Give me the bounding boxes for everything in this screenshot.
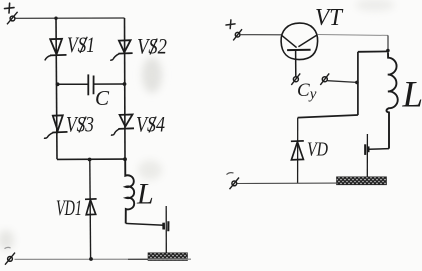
control terminal circle A (Cy) bbox=[291, 73, 300, 85]
wire: coil bottom to blocking capacitor (right) bbox=[369, 148, 389, 151]
plus input terminal circle right circuit bbox=[233, 29, 242, 40]
transistor VT internals bbox=[282, 35, 318, 77]
wire: middle bottom row left circuit bbox=[57, 158, 125, 160]
node: right branch / bottom row bbox=[123, 157, 127, 161]
thyristor VS4 bbox=[111, 115, 134, 136]
capacitor wire-end plate (right circuit) bbox=[367, 146, 370, 152]
node: junction top rail / left branch bbox=[54, 17, 57, 20]
svg-text:VT: VT bbox=[315, 5, 344, 31]
plus terminal label (+) left circuit bbox=[5, 3, 15, 13]
label VS4 (S crossed) bbox=[149, 117, 156, 133]
node: coil top junction bbox=[386, 49, 390, 53]
svg-text:C: C bbox=[95, 86, 110, 110]
wire: terminal B to right vertical bbox=[327, 81, 356, 83]
wire: plus terminal to transistor bbox=[240, 34, 281, 36]
svg-text:L: L bbox=[136, 178, 154, 211]
minus output terminal circle right circuit bbox=[230, 178, 240, 190]
svg-text:VS4: VS4 bbox=[136, 112, 165, 137]
svg-text:VS2: VS2 bbox=[137, 34, 167, 59]
screen / chassis block (left circuit, hatched) bbox=[148, 253, 188, 261]
control terminal circle B bbox=[320, 73, 329, 85]
capacitor short plate right (left circuit) bbox=[167, 221, 169, 231]
svg-text:VS1: VS1 bbox=[67, 32, 95, 57]
transistor VT (circle) bbox=[281, 23, 318, 60]
wire: jog left from coil junction bbox=[358, 50, 388, 52]
svg-text:VD: VD bbox=[307, 139, 328, 161]
wire: horizontal to VD branch bbox=[298, 115, 358, 118]
inductor L (right circuit) bbox=[386, 52, 397, 148]
capacitor short plate left (right circuit) bbox=[364, 144, 366, 155]
svg-text:VD1: VD1 bbox=[56, 195, 82, 220]
node: right branch / capacitor row bbox=[123, 82, 127, 86]
minus sign right circuit bbox=[227, 173, 234, 175]
node: VD1 / bottom rail bbox=[89, 257, 93, 261]
wire: VD1 branch vertical bbox=[89, 160, 92, 260]
wire: transistor to top-right corner bbox=[318, 34, 388, 37]
inductor L (left circuit) bbox=[125, 159, 134, 223]
svg-text:L: L bbox=[402, 75, 422, 116]
minus sign left circuit bbox=[5, 247, 11, 248]
capacitor plate (wire-end, left circuit) bbox=[162, 223, 165, 230]
wire: bottom rail left circuit bbox=[15, 258, 192, 260]
capacitor long plate / lead to screen (left circuit) bbox=[165, 206, 167, 254]
plus terminal label (+) right circuit bbox=[226, 20, 235, 29]
node: VD1 branch junction bbox=[88, 158, 92, 162]
diode VD1 bbox=[85, 199, 97, 215]
wire: capacitor row bbox=[58, 83, 89, 85]
thyristor VS3 bbox=[44, 115, 68, 138]
thyristor VS1 bbox=[45, 39, 67, 61]
svg-text:VS3: VS3 bbox=[66, 112, 94, 137]
screen / chassis block (right circuit, hatched) bbox=[337, 177, 387, 185]
wire: top-right corner down bbox=[387, 35, 389, 50]
label VS2 (S crossed) bbox=[150, 39, 157, 55]
label VS1 (S crossed) bbox=[80, 37, 87, 53]
label VS3 (S crossed) bbox=[79, 117, 86, 133]
diode VD bbox=[291, 141, 304, 160]
wire: coil output to blocking capacitor bbox=[126, 223, 164, 225]
capacitor C plates bbox=[88, 74, 93, 95]
capacitor long plate / lead to screen (right circuit) bbox=[366, 134, 368, 179]
plus input terminal circle left circuit bbox=[7, 12, 18, 24]
node: control wire junction bbox=[355, 81, 359, 85]
wire: bottom rail right circuit bbox=[237, 182, 338, 184]
wire: VD branch vertical bbox=[297, 118, 299, 184]
wire: middle vertical (x=358) bbox=[357, 52, 359, 115]
wire: left branch vertical bbox=[56, 18, 57, 159]
wire: right branch vertical bbox=[124, 18, 127, 159]
wire: top rail left circuit bbox=[15, 17, 125, 19]
node: left branch / capacitor row bbox=[56, 82, 60, 86]
thyristor VS2 bbox=[110, 40, 132, 60]
minus output terminal circle left circuit bbox=[5, 253, 15, 265]
